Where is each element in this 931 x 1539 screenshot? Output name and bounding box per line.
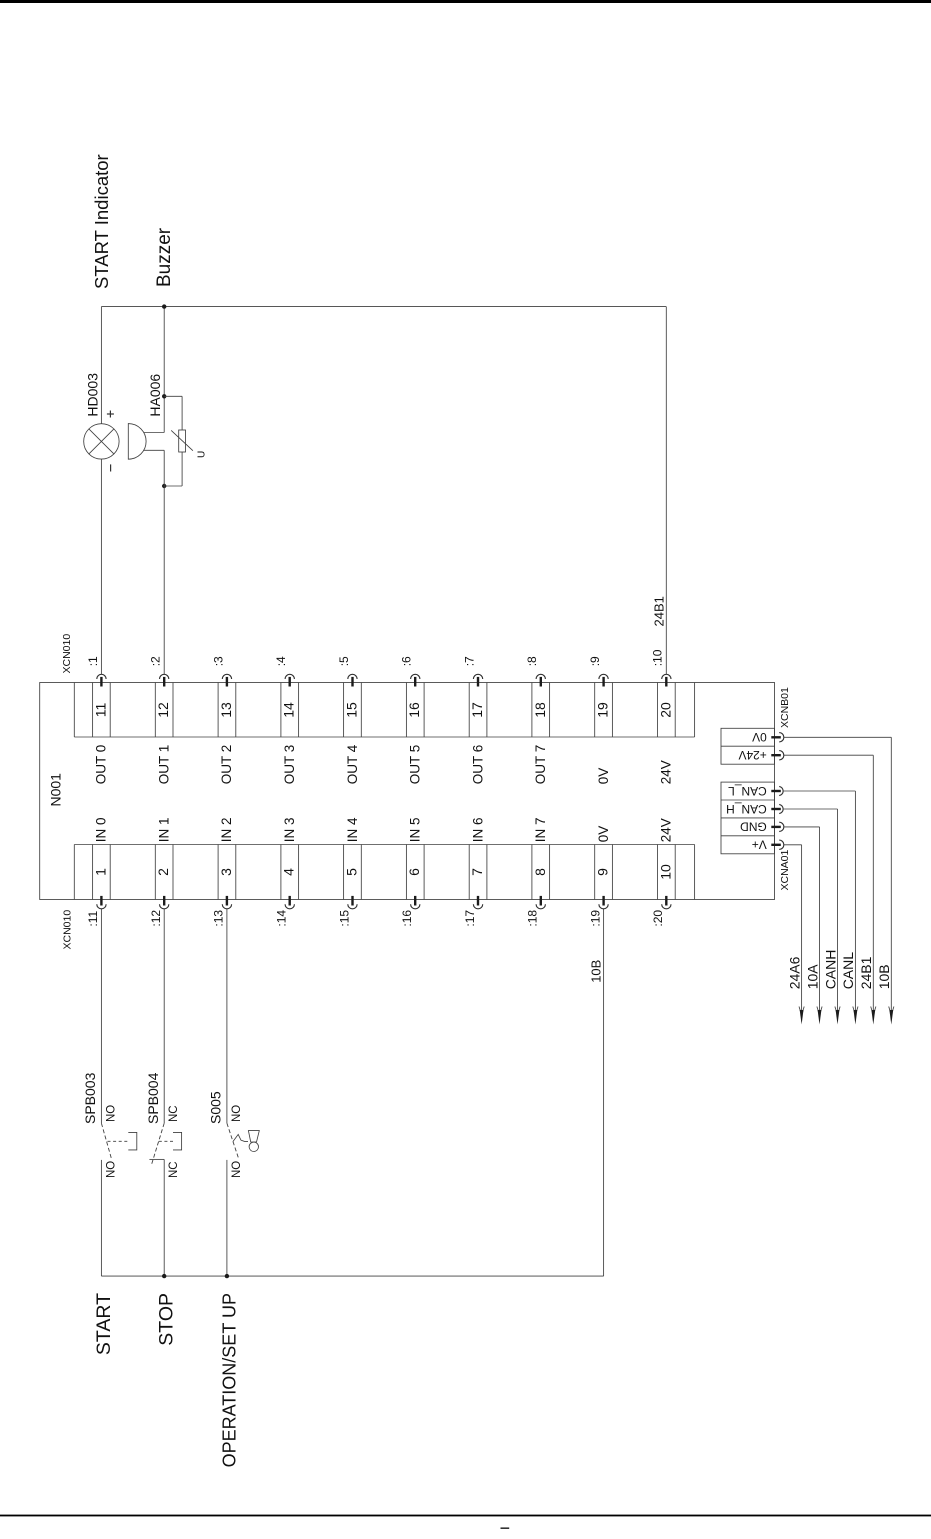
svg-text::3: :3	[211, 656, 225, 666]
svg-text:24B1: 24B1	[858, 956, 874, 989]
svg-text:17: 17	[469, 702, 485, 718]
svg-text:XCNB01: XCNB01	[779, 687, 791, 728]
svg-text::5: :5	[337, 656, 351, 666]
svg-text::19: :19	[588, 910, 602, 927]
svg-text:16: 16	[406, 702, 422, 718]
svg-text:NC: NC	[168, 1105, 180, 1122]
svg-text:XCN010: XCN010	[61, 634, 73, 674]
svg-text:CANL: CANL	[840, 952, 856, 990]
svg-text:CANH: CANH	[822, 950, 838, 990]
svg-text::9: :9	[588, 656, 602, 666]
svg-text:NO: NO	[231, 1105, 243, 1122]
svg-text:OUT 2: OUT 2	[219, 745, 234, 785]
svg-text:NO: NO	[231, 1161, 243, 1178]
svg-text:IN 7: IN 7	[533, 818, 548, 843]
svg-text:9: 9	[595, 868, 611, 876]
svg-text:10A: 10A	[804, 964, 820, 990]
svg-text::14: :14	[275, 910, 289, 927]
svg-text:N001: N001	[48, 773, 64, 807]
svg-text::15: :15	[337, 910, 351, 927]
svg-text:14: 14	[281, 702, 297, 718]
svg-text::4: :4	[274, 656, 288, 666]
svg-text:NC: NC	[168, 1161, 180, 1178]
svg-text:0V: 0V	[596, 768, 611, 785]
svg-text:19: 19	[595, 702, 611, 718]
svg-text:6: 6	[406, 868, 422, 876]
svg-text::20: :20	[651, 910, 665, 927]
svg-text:7: 7	[469, 868, 485, 876]
svg-text:1: 1	[92, 868, 108, 876]
svg-text:12: 12	[155, 702, 171, 718]
svg-text:SPB003: SPB003	[82, 1072, 98, 1124]
svg-text:24B1: 24B1	[652, 596, 667, 626]
svg-text:3: 3	[218, 868, 234, 876]
svg-text:S005: S005	[208, 1091, 224, 1124]
svg-text:U: U	[197, 451, 208, 458]
svg-text:4: 4	[281, 868, 297, 876]
svg-text:V+: V+	[752, 838, 767, 852]
svg-text:24A6: 24A6	[786, 956, 802, 989]
svg-text:NO: NO	[105, 1105, 117, 1122]
svg-text:SPB004: SPB004	[145, 1072, 161, 1124]
svg-text::16: :16	[400, 910, 414, 927]
svg-text:CAN_H: CAN_H	[726, 802, 767, 816]
svg-text:OUT 6: OUT 6	[470, 745, 485, 785]
svg-text:OPERATION/SET UP: OPERATION/SET UP	[219, 1293, 239, 1467]
svg-text:0V: 0V	[752, 730, 767, 744]
svg-text::18: :18	[526, 910, 540, 927]
svg-text:START Indicator: START Indicator	[91, 154, 112, 289]
svg-text:OUT 5: OUT 5	[408, 745, 423, 785]
svg-text::8: :8	[525, 656, 539, 666]
svg-text:5: 5	[344, 868, 360, 876]
svg-text:OUT 1: OUT 1	[157, 745, 172, 785]
svg-text:10B: 10B	[588, 960, 603, 983]
svg-text:OUT 7: OUT 7	[533, 745, 548, 785]
svg-text::13: :13	[212, 910, 226, 927]
svg-text:24V: 24V	[659, 760, 674, 784]
svg-text:IN 6: IN 6	[470, 818, 485, 843]
svg-text:IN 5: IN 5	[408, 818, 423, 843]
svg-text:10B: 10B	[876, 964, 892, 989]
svg-text:OUT 0: OUT 0	[94, 745, 109, 785]
svg-text:IN 0: IN 0	[94, 818, 109, 843]
svg-text:Buzzer: Buzzer	[154, 227, 175, 287]
svg-text::2: :2	[149, 656, 163, 666]
svg-text:13: 13	[218, 702, 234, 718]
svg-text:STOP: STOP	[156, 1293, 178, 1346]
svg-text:15: 15	[344, 702, 360, 718]
svg-text:NO: NO	[105, 1161, 117, 1178]
svg-text:10: 10	[657, 864, 673, 880]
svg-text::6: :6	[400, 656, 414, 666]
svg-text:11: 11	[92, 703, 108, 718]
svg-text:2: 2	[155, 868, 171, 876]
svg-text:START: START	[93, 1293, 115, 1355]
svg-text:IN 1: IN 1	[157, 818, 172, 843]
svg-text:0V: 0V	[596, 826, 611, 843]
svg-text:CAN_L: CAN_L	[728, 784, 767, 798]
svg-text::1: :1	[86, 656, 100, 666]
svg-text:XCNA01: XCNA01	[779, 849, 791, 890]
svg-text:IN 4: IN 4	[345, 817, 360, 842]
svg-text:OUT 4: OUT 4	[345, 744, 360, 784]
svg-text:HA006: HA006	[147, 374, 163, 417]
svg-text:20: 20	[657, 702, 673, 718]
svg-text::7: :7	[462, 656, 476, 666]
svg-text:GND: GND	[740, 820, 767, 834]
svg-text:8: 8	[532, 868, 548, 876]
svg-text::11: :11	[86, 910, 100, 926]
svg-text:XCN010: XCN010	[62, 910, 74, 950]
svg-text:IN 2: IN 2	[219, 818, 234, 843]
svg-text::10: :10	[651, 649, 665, 666]
svg-text::12: :12	[149, 910, 163, 927]
svg-text:24V: 24V	[659, 818, 674, 842]
svg-text:+24V: +24V	[738, 748, 766, 762]
svg-text:HD003: HD003	[84, 373, 100, 417]
svg-text:OUT 3: OUT 3	[282, 745, 297, 785]
svg-text:18: 18	[532, 702, 548, 718]
svg-text:IN 3: IN 3	[282, 818, 297, 843]
svg-text::17: :17	[463, 910, 477, 927]
